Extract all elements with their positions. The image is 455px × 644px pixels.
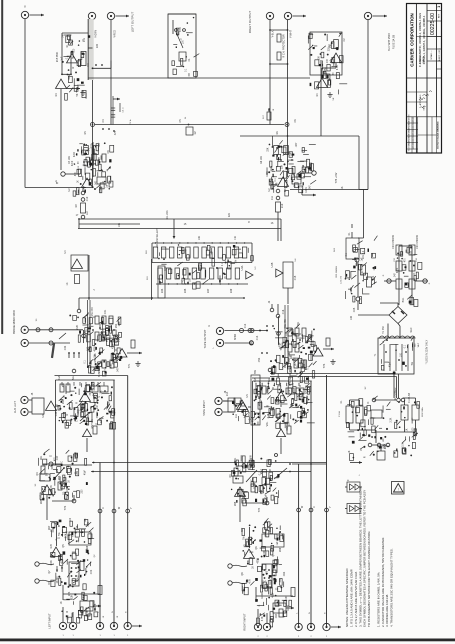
svg-text:R71: R71 xyxy=(76,577,79,582)
svg-text:C11: C11 xyxy=(271,195,274,200)
svg-text:47pF: 47pF xyxy=(72,160,74,166)
svg-text:4.7K: 4.7K xyxy=(249,578,251,583)
svg-text:TAPE INPUT: TAPE INPUT xyxy=(202,400,206,416)
svg-text:R97: R97 xyxy=(241,527,244,532)
svg-text:+15: +15 xyxy=(350,289,353,294)
svg-text:CARVER CORPORATION: CARVER CORPORATION xyxy=(410,13,415,67)
svg-text:Y-RED: Y-RED xyxy=(114,30,117,38)
svg-text:VOL: VOL xyxy=(266,421,269,426)
svg-text:10K: 10K xyxy=(118,222,121,227)
svg-text:1K: 1K xyxy=(406,428,408,431)
svg-text:2.2K: 2.2K xyxy=(66,533,68,538)
svg-text:C42: C42 xyxy=(90,569,93,574)
svg-text:100K: 100K xyxy=(116,357,118,363)
svg-text:* USED IN 220V ONLY: * USED IN 220V ONLY xyxy=(426,339,429,364)
svg-text:+: + xyxy=(428,282,430,286)
svg-text:C57: C57 xyxy=(250,457,253,462)
svg-text:1uF: 1uF xyxy=(61,56,63,61)
svg-text:47pF: 47pF xyxy=(84,469,86,475)
svg-text:1: 1 xyxy=(437,6,441,8)
svg-text:4. TRANSISTORS ARE 2SC 945 OR: 4. TRANSISTORS ARE 2SC 945 OR EQUIVALENT… xyxy=(390,548,394,627)
svg-text:4558: 4558 xyxy=(324,67,327,73)
svg-text:4558: 4558 xyxy=(68,74,71,80)
svg-text:DO NOT SCALE DRAWING: DO NOT SCALE DRAWING xyxy=(437,121,440,148)
svg-text:4.7K: 4.7K xyxy=(280,412,282,417)
svg-text:APPROVALS: APPROVALS xyxy=(419,94,422,106)
svg-text:TP5 +15V: TP5 +15V xyxy=(335,172,338,183)
svg-text:C22: C22 xyxy=(372,275,375,280)
svg-text:C34: C34 xyxy=(94,401,97,406)
svg-text:4.7K: 4.7K xyxy=(51,543,53,548)
svg-text:U9A: U9A xyxy=(309,335,312,340)
svg-text:.047: .047 xyxy=(286,595,288,600)
svg-text:1K: 1K xyxy=(51,529,53,532)
svg-text:22K: 22K xyxy=(265,532,267,537)
svg-text:C35: C35 xyxy=(55,411,58,416)
svg-text:1M: 1M xyxy=(194,131,197,134)
svg-text:C44: C44 xyxy=(82,611,85,616)
svg-text:BAL: BAL xyxy=(268,377,271,382)
svg-text:SHEET 1 OF 1: SHEET 1 OF 1 xyxy=(439,47,441,61)
svg-text:R73: R73 xyxy=(68,591,71,596)
svg-text:100K: 100K xyxy=(186,248,188,254)
svg-text:47pF: 47pF xyxy=(273,592,275,598)
svg-text:R105: R105 xyxy=(287,604,290,610)
svg-text:1uF: 1uF xyxy=(106,183,108,188)
svg-text:22K: 22K xyxy=(228,212,231,217)
svg-text:R99: R99 xyxy=(279,547,282,552)
svg-text:10K: 10K xyxy=(286,331,288,336)
svg-text:R67: R67 xyxy=(48,525,51,530)
svg-text:C31: C31 xyxy=(104,309,107,314)
svg-text:TP2: TP2 xyxy=(64,505,67,510)
svg-text:4.7K: 4.7K xyxy=(180,27,182,32)
svg-text:R52: R52 xyxy=(115,323,118,328)
svg-text:C23 4700/35: C23 4700/35 xyxy=(392,234,395,248)
svg-text:220: 220 xyxy=(96,43,99,48)
svg-text:RIGHT INPUT: RIGHT INPUT xyxy=(243,613,247,630)
svg-text:Q: Q xyxy=(290,384,292,386)
svg-text:C25: C25 xyxy=(353,307,356,312)
svg-text:C55: C55 xyxy=(248,411,251,416)
svg-text:C10: C10 xyxy=(86,196,89,201)
svg-text:C51: C51 xyxy=(297,321,300,326)
svg-text:R83 10K: R83 10K xyxy=(288,353,291,363)
svg-text:.047: .047 xyxy=(272,406,274,411)
svg-text:1K: 1K xyxy=(61,601,63,604)
svg-text:R37: R37 xyxy=(207,288,210,293)
svg-text:U11: U11 xyxy=(235,413,238,418)
svg-text:TP4: TP4 xyxy=(258,507,261,512)
svg-text:S2 POWER: S2 POWER xyxy=(394,387,397,400)
svg-text:F1 2A: F1 2A xyxy=(338,411,341,417)
svg-text:C24 4700/35: C24 4700/35 xyxy=(416,234,419,248)
svg-text:R103: R103 xyxy=(261,592,264,598)
svg-text:2.2K: 2.2K xyxy=(77,324,79,329)
svg-text:4.7K: 4.7K xyxy=(87,610,89,615)
svg-text:1K: 1K xyxy=(78,539,80,542)
svg-text:00225-00: 00225-00 xyxy=(430,13,436,35)
svg-text:10K: 10K xyxy=(318,56,320,61)
svg-text:R75: R75 xyxy=(94,603,97,608)
svg-text:F1 2A SB: F1 2A SB xyxy=(408,393,411,404)
svg-text:C58: C58 xyxy=(260,489,263,494)
svg-text:5%: 5% xyxy=(59,532,61,535)
svg-text:1K: 1K xyxy=(349,450,351,453)
svg-text:.047: .047 xyxy=(89,147,91,152)
svg-text:R69: R69 xyxy=(86,545,89,550)
svg-text:C15: C15 xyxy=(294,275,297,280)
svg-text:22K: 22K xyxy=(267,147,269,152)
svg-text:J: J xyxy=(358,475,359,477)
svg-text:47pF: 47pF xyxy=(397,267,399,273)
svg-text:LEFT OUTPUT: LEFT OUTPUT xyxy=(131,12,135,33)
svg-text:R55: R55 xyxy=(62,399,65,404)
svg-text:100K: 100K xyxy=(305,187,308,193)
svg-text:4558: 4558 xyxy=(257,558,259,564)
svg-text:C21 470: C21 470 xyxy=(341,275,343,284)
svg-text:4.7K: 4.7K xyxy=(337,65,339,70)
svg-text:VOL: VOL xyxy=(70,419,73,424)
svg-text:C52: C52 xyxy=(258,357,261,362)
svg-text:R85: R85 xyxy=(258,401,261,406)
svg-text:!: ! xyxy=(398,488,399,492)
svg-text:Y-BLK: Y-BLK xyxy=(272,30,275,37)
svg-text:R61: R61 xyxy=(40,455,43,460)
svg-text:TP1: TP1 xyxy=(128,363,131,368)
svg-text:C12: C12 xyxy=(244,323,247,328)
svg-text:T1 PRI: T1 PRI xyxy=(382,326,385,334)
svg-text:22K: 22K xyxy=(281,164,283,169)
svg-text:22K: 22K xyxy=(291,354,293,359)
svg-text:AC: AC xyxy=(382,438,385,442)
svg-text:47K: 47K xyxy=(114,130,117,135)
svg-text:10K: 10K xyxy=(278,331,280,336)
svg-text:1K: 1K xyxy=(66,282,69,285)
svg-text:R33: R33 xyxy=(161,288,164,293)
svg-text:100: 100 xyxy=(350,315,353,320)
svg-text:FUSE 3A SB: FUSE 3A SB xyxy=(393,35,396,50)
svg-text:R11 22K: R11 22K xyxy=(166,210,169,220)
svg-text:100K: 100K xyxy=(99,187,102,193)
svg-text:R57 50K: R57 50K xyxy=(91,419,94,429)
svg-text:+: + xyxy=(382,274,384,278)
svg-text:47pF: 47pF xyxy=(389,361,391,367)
svg-text:U10: U10 xyxy=(288,389,291,394)
svg-text:47pF: 47pF xyxy=(74,151,76,157)
svg-text:TAPE OUTPUT: TAPE OUTPUT xyxy=(203,329,207,348)
svg-text:1uF: 1uF xyxy=(86,210,89,215)
svg-text:R21-R32 SELECT: R21-R32 SELECT xyxy=(156,228,159,248)
svg-text:.047: .047 xyxy=(310,185,312,190)
svg-text:R10: R10 xyxy=(281,203,284,208)
svg-text:R45: R45 xyxy=(364,425,367,430)
svg-text:R8 10K: R8 10K xyxy=(260,156,263,164)
svg-text:.047: .047 xyxy=(327,58,329,63)
svg-text:R CH. PROTECTOR: R CH. PROTECTOR xyxy=(283,34,286,57)
svg-text:4558: 4558 xyxy=(92,143,94,149)
svg-text:BRIDGE MONO SPKR: BRIDGE MONO SPKR xyxy=(14,310,16,334)
svg-text:R41 2.2: R41 2.2 xyxy=(362,250,365,259)
svg-text:100K: 100K xyxy=(51,560,53,566)
svg-text:R95: R95 xyxy=(234,501,237,506)
svg-text:.047: .047 xyxy=(280,578,282,583)
svg-text:10K: 10K xyxy=(362,270,364,275)
svg-text:.047: .047 xyxy=(98,142,101,147)
svg-text:C3 .1: C3 .1 xyxy=(123,107,125,113)
svg-text:DRAWN: DRAWN xyxy=(419,56,422,64)
svg-text:5%: 5% xyxy=(47,473,49,476)
svg-text:R81 470: R81 470 xyxy=(284,319,287,329)
svg-text:REV: REV xyxy=(439,13,441,18)
svg-text:R93: R93 xyxy=(252,477,255,482)
svg-text:5K: 5K xyxy=(77,93,79,96)
svg-text:10K: 10K xyxy=(403,442,405,447)
svg-text:C13: C13 xyxy=(256,335,259,340)
svg-text:C64: C64 xyxy=(275,613,278,618)
svg-text:TP3: TP3 xyxy=(323,363,326,368)
svg-text:22K: 22K xyxy=(101,419,103,424)
svg-text:C62: C62 xyxy=(283,571,286,576)
svg-text:CR5 1N4004: CR5 1N4004 xyxy=(336,265,338,278)
svg-text:R101: R101 xyxy=(269,578,272,584)
svg-text:1K: 1K xyxy=(225,276,227,279)
svg-text:TO PCB ASSEMBLY NOTATION FOR T: TO PCB ASSEMBLY NOTATION FOR THE EXACT J… xyxy=(367,531,371,627)
svg-text:U3A: U3A xyxy=(241,265,244,270)
svg-text:R51 470: R51 470 xyxy=(91,307,94,317)
svg-text:U3B: U3B xyxy=(271,262,274,267)
svg-text:R91: R91 xyxy=(234,457,237,462)
svg-text:R7 10K: R7 10K xyxy=(68,156,71,164)
svg-text:S1A: S1A xyxy=(58,375,61,380)
svg-text:47pF: 47pF xyxy=(280,342,282,348)
svg-text:1K: 1K xyxy=(252,566,254,569)
svg-text:C54: C54 xyxy=(290,403,293,408)
svg-text:10K: 10K xyxy=(198,235,201,240)
svg-text:.047: .047 xyxy=(260,381,262,386)
svg-text:47pF: 47pF xyxy=(266,494,268,500)
svg-text:C40: C40 xyxy=(76,525,79,530)
svg-text:1K: 1K xyxy=(295,363,297,366)
svg-text:C60: C60 xyxy=(269,527,272,532)
svg-text:SEC: SEC xyxy=(410,327,413,332)
svg-text:U6A: U6A xyxy=(114,335,117,340)
svg-text:BAL: BAL xyxy=(72,375,75,380)
svg-text:.047: .047 xyxy=(270,468,272,473)
svg-text:Q: Q xyxy=(99,396,101,398)
svg-text:1K: 1K xyxy=(243,496,245,499)
svg-text:Q: Q xyxy=(58,537,60,539)
svg-text:C32: C32 xyxy=(64,345,67,350)
svg-text:4.7K: 4.7K xyxy=(262,616,264,621)
svg-text:R63: R63 xyxy=(58,475,61,480)
svg-text:.047: .047 xyxy=(118,367,120,372)
svg-text:Y-WHT: Y-WHT xyxy=(290,30,293,38)
svg-text:10K: 10K xyxy=(189,277,191,282)
svg-text:R15 680K: R15 680K xyxy=(57,51,59,62)
svg-text:.047: .047 xyxy=(294,183,296,188)
svg-text:LEFT INPUT: LEFT INPUT xyxy=(48,613,52,629)
svg-text:4.7K: 4.7K xyxy=(83,593,85,598)
svg-text:.047: .047 xyxy=(295,142,298,147)
svg-text:R39: R39 xyxy=(230,288,233,293)
svg-text:RIGHT OUTPUT: RIGHT OUTPUT xyxy=(248,11,252,34)
svg-text:AUX LEFT: AUX LEFT xyxy=(14,401,17,413)
svg-text:Q: Q xyxy=(273,555,275,557)
svg-text:C37: C37 xyxy=(56,455,59,460)
svg-text:1K: 1K xyxy=(68,480,70,483)
svg-text:120V 60Hz: 120V 60Hz xyxy=(422,407,424,417)
svg-text:1K: 1K xyxy=(77,180,79,183)
svg-text:BLK: BLK xyxy=(415,342,417,346)
svg-text:1uF: 1uF xyxy=(45,486,47,491)
svg-text:100K: 100K xyxy=(78,409,80,415)
svg-text:R35: R35 xyxy=(184,288,187,293)
svg-text:SPKR: SPKR xyxy=(235,334,237,341)
svg-text:BR1: BR1 xyxy=(402,297,405,302)
svg-text:1uF: 1uF xyxy=(85,518,87,523)
svg-text:BLK WHT 250V: BLK WHT 250V xyxy=(388,33,391,51)
svg-text:22K: 22K xyxy=(267,388,269,393)
svg-text:5%: 5% xyxy=(412,362,414,365)
svg-text:CHECK: CHECK xyxy=(423,56,425,63)
svg-text:5%: 5% xyxy=(243,536,245,539)
svg-text:1K: 1K xyxy=(248,540,250,543)
svg-text:R: R xyxy=(208,325,211,327)
svg-text:47pF: 47pF xyxy=(261,468,263,474)
svg-text:1uF: 1uF xyxy=(277,541,279,546)
svg-text:S1B: S1B xyxy=(254,377,257,382)
svg-text:100K: 100K xyxy=(264,550,266,556)
svg-text:SCALE —: SCALE — xyxy=(430,50,433,59)
svg-text:C38: C38 xyxy=(66,487,69,492)
svg-text:WHT: WHT xyxy=(418,342,420,347)
svg-text:Y-GRN: Y-GRN xyxy=(95,30,98,38)
svg-text:R53 10K: R53 10K xyxy=(94,353,97,363)
svg-text:10K: 10K xyxy=(100,390,102,395)
svg-text:2.2K: 2.2K xyxy=(71,594,73,599)
svg-text:R87 50K: R87 50K xyxy=(286,421,289,431)
svg-text:R65: R65 xyxy=(40,499,43,504)
svg-text:.047: .047 xyxy=(96,180,98,185)
svg-text:5%: 5% xyxy=(236,260,238,263)
svg-text:C16: C16 xyxy=(282,309,285,314)
svg-text:DATE: DATE xyxy=(423,105,426,110)
svg-text:C5 1u: C5 1u xyxy=(130,118,132,124)
svg-text:Q: Q xyxy=(94,316,96,318)
svg-text:2.2K: 2.2K xyxy=(390,417,392,422)
svg-text:1uF: 1uF xyxy=(307,394,309,399)
svg-text:4.7K: 4.7K xyxy=(268,413,270,418)
svg-text:.047: .047 xyxy=(97,405,99,410)
